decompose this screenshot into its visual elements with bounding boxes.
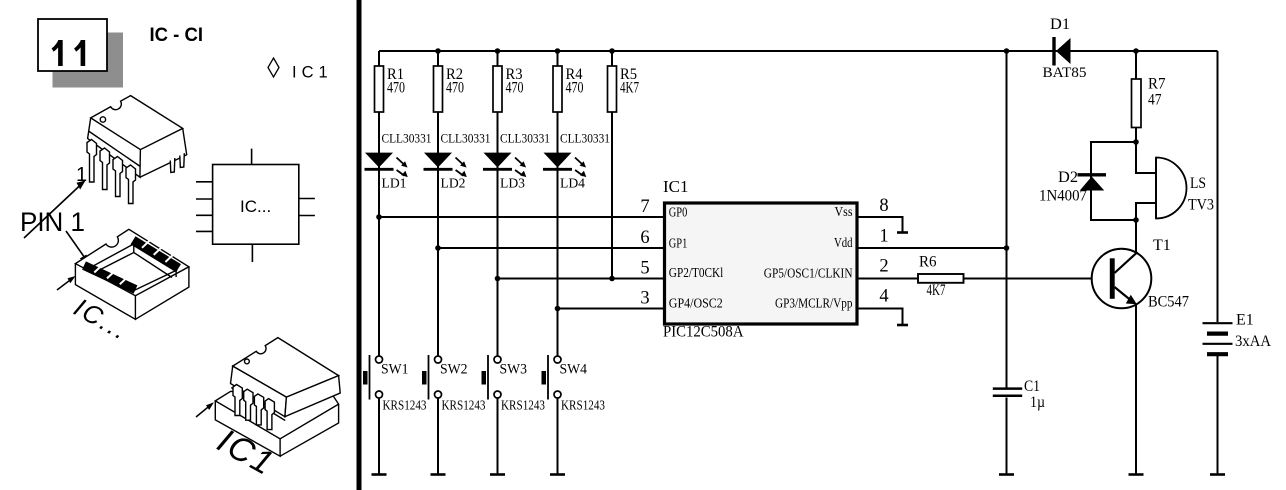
wire column 3 (R3/LD3/SW3) xyxy=(497,51,499,356)
resistor R7 xyxy=(1132,76,1166,128)
wire column 1 below SW1 xyxy=(378,398,380,475)
svg-text:3xAA: 3xAA xyxy=(1235,333,1272,350)
junction rail column 4 xyxy=(555,48,561,54)
wire column 4 (R4/LD4/SW4) xyxy=(557,51,559,356)
resistor R3 xyxy=(493,66,524,112)
wire GP4 pin 3 net xyxy=(558,308,665,310)
junction GP2 net R5 xyxy=(609,276,615,282)
svg-text:CLL30331: CLL30331 xyxy=(500,131,550,146)
svg-text:KRS1243: KRS1243 xyxy=(442,398,486,413)
wire C1 branch xyxy=(1006,51,1008,388)
junction rail R7 branch xyxy=(1133,48,1139,54)
battery E1 3xAA xyxy=(1203,312,1272,355)
svg-text:SW2: SW2 xyxy=(440,361,468,377)
svg-text:GP3/MCLR/Vpp: GP3/MCLR/Vpp xyxy=(775,297,853,312)
socket contact slot row left xyxy=(84,265,136,290)
svg-text:E1: E1 xyxy=(1236,312,1254,329)
LED LD4 xyxy=(543,131,610,192)
arrow to IC1 socket corner xyxy=(196,402,214,417)
svg-text:LD2: LD2 xyxy=(441,177,466,192)
svg-text:SW4: SW4 xyxy=(560,361,588,377)
svg-text:C1: C1 xyxy=(1024,378,1040,395)
junction rail column 2 xyxy=(435,48,441,54)
svg-text:1: 1 xyxy=(879,227,888,247)
junction Vdd net C1 branch xyxy=(1004,245,1010,251)
capacitor C1 xyxy=(993,378,1045,411)
IC circuit symbol box xyxy=(196,149,315,262)
resistor R4 xyxy=(553,66,584,112)
svg-text:2: 2 xyxy=(879,257,888,277)
svg-text:4K7: 4K7 xyxy=(927,282,946,299)
terminal bar T1 emitter xyxy=(1129,473,1144,476)
svg-text:D1: D1 xyxy=(1050,16,1070,33)
wire right rail down to battery E1 xyxy=(1217,51,1219,322)
junction GP2 net column 3 xyxy=(495,276,501,282)
LED LD1 xyxy=(365,131,432,192)
switch SW4 xyxy=(542,355,606,413)
svg-text:IC - CI: IC - CI xyxy=(150,25,204,46)
terminal bar E1 xyxy=(1210,473,1225,476)
wire column 4 below SW4 xyxy=(557,398,559,475)
svg-text:1N4007: 1N4007 xyxy=(1039,188,1087,205)
svg-text:T1: T1 xyxy=(1153,237,1171,254)
wire R7 branch xyxy=(1135,51,1137,142)
svg-text:3: 3 xyxy=(640,289,649,309)
svg-text:TV3: TV3 xyxy=(1188,197,1214,214)
terminal bar pin 8 xyxy=(897,231,908,234)
svg-text:8: 8 xyxy=(879,196,888,216)
wire T1 collector xyxy=(1135,220,1137,252)
chapter number box shadow xyxy=(53,33,124,88)
svg-text:470: 470 xyxy=(387,80,405,97)
svg-text:470: 470 xyxy=(566,80,584,97)
wire GP1 pin 6 net xyxy=(438,247,664,249)
svg-text:4: 4 xyxy=(879,287,888,307)
wire Vdd pin 1 net xyxy=(857,247,1007,249)
switch SW3 xyxy=(482,355,546,413)
svg-text:5: 5 xyxy=(640,259,649,279)
resistor R6 xyxy=(918,254,964,300)
junction GP0 net column 1 xyxy=(376,214,382,220)
svg-text:7: 7 xyxy=(640,197,649,217)
wire GP5 pin 2 net through R6 to T1 base xyxy=(857,278,1109,280)
svg-text:6: 6 xyxy=(640,228,649,248)
svg-text:KRS1243: KRS1243 xyxy=(383,398,427,413)
transistor T1 BC547 xyxy=(1092,237,1190,311)
terminal bar column 4 xyxy=(550,473,565,476)
switch SW1 xyxy=(363,355,427,413)
svg-text:CLL30331: CLL30331 xyxy=(441,131,491,146)
IC in socket 3D drawing xyxy=(215,338,340,457)
diode D2 1N4007 xyxy=(1039,169,1106,205)
LED LD3 xyxy=(483,131,550,192)
junction GP1 net column 2 xyxy=(435,245,441,251)
legend diamond symbol xyxy=(268,58,279,77)
diode D1 BAT85 xyxy=(1043,16,1087,81)
arrow PIN 1 to DIP pin xyxy=(24,181,86,239)
svg-text:470: 470 xyxy=(506,80,524,97)
svg-text:R6: R6 xyxy=(919,254,937,271)
svg-text:GP1: GP1 xyxy=(669,236,688,251)
svg-text:D2: D2 xyxy=(1058,169,1078,186)
panel divider bar xyxy=(357,0,362,490)
svg-text:Vss: Vss xyxy=(835,205,853,220)
wire speaker lower lead xyxy=(1136,203,1156,220)
wire T1 emitter to bottom termination xyxy=(1135,305,1137,475)
junction rail R5 xyxy=(609,48,615,54)
wire column 3 below SW3 xyxy=(497,398,499,475)
svg-text:BAT85: BAT85 xyxy=(1043,65,1087,81)
wire Vss pin 8 stub xyxy=(857,217,903,232)
svg-text:IC...: IC... xyxy=(240,197,271,216)
svg-text:PIN 1: PIN 1 xyxy=(20,207,85,237)
svg-text:1µ: 1µ xyxy=(1030,394,1045,411)
junction rail C1 branch xyxy=(1004,48,1010,54)
svg-text:CLL30331: CLL30331 xyxy=(560,131,610,146)
svg-text:SW1: SW1 xyxy=(381,361,409,377)
junction D2 loop bottom xyxy=(1133,217,1139,223)
arrow to socket pin 1 corner xyxy=(57,276,76,290)
socket contact slot row right xyxy=(133,240,179,268)
svg-text:CLL30331: CLL30331 xyxy=(382,131,432,146)
svg-text:GP0: GP0 xyxy=(669,206,688,221)
svg-text:R7: R7 xyxy=(1148,76,1166,93)
junction rail column 3 xyxy=(495,48,501,54)
resistor R5 xyxy=(608,66,640,112)
wire column 2 below SW2 xyxy=(437,398,439,475)
wire speaker upper lead xyxy=(1136,142,1156,173)
svg-text:GP2/T0CKl: GP2/T0CKl xyxy=(669,266,724,281)
svg-text:GP4/OSC2: GP4/OSC2 xyxy=(669,297,723,312)
arrow PIN 1 to socket xyxy=(66,231,89,264)
wire column 2 (R2/LD2/SW2) xyxy=(437,51,439,356)
svg-text:LD3: LD3 xyxy=(500,177,525,192)
svg-text:Vdd: Vdd xyxy=(834,236,853,251)
terminal bar pin 4 xyxy=(897,324,908,327)
svg-text:SW3: SW3 xyxy=(500,361,528,377)
wire GP2 pin 5 net xyxy=(498,278,665,280)
wire column 5 (R5) down to GP2 net xyxy=(611,51,613,279)
terminal bar C1 xyxy=(999,473,1014,476)
wire battery E1 to bottom termination xyxy=(1217,356,1219,475)
svg-text:IC1: IC1 xyxy=(663,177,689,196)
switch SW2 xyxy=(422,355,486,413)
wire C1 to bottom termination xyxy=(1006,398,1008,475)
loudspeaker LS TV3 xyxy=(1156,158,1214,219)
IC socket 3D drawing xyxy=(75,229,188,319)
resistor R1 xyxy=(375,66,406,112)
terminal bar column 2 xyxy=(431,473,446,476)
svg-text:LD4: LD4 xyxy=(560,177,585,192)
terminal bar column 1 xyxy=(372,473,387,476)
wire top supply rail xyxy=(379,50,1218,52)
svg-text:KRS1243: KRS1243 xyxy=(561,398,605,413)
resistor R2 xyxy=(434,66,465,112)
svg-text:47: 47 xyxy=(1148,92,1162,109)
IC U1 PIC12C508A box xyxy=(663,177,857,341)
svg-text:4K7: 4K7 xyxy=(620,80,639,97)
chapter number box 11 xyxy=(38,19,107,71)
svg-text:IC1: IC1 xyxy=(292,64,333,82)
wire D2 loop xyxy=(1091,142,1136,220)
svg-text:GP5/OSC1/CLKIN: GP5/OSC1/CLKIN xyxy=(764,266,853,281)
svg-text:KRS1243: KRS1243 xyxy=(501,398,545,413)
DIP-8 package 3D drawing xyxy=(87,96,187,204)
LED LD2 xyxy=(424,131,491,192)
terminal bar column 3 xyxy=(490,473,505,476)
junction D2 loop top xyxy=(1133,139,1139,145)
svg-text:LS: LS xyxy=(1190,175,1206,192)
svg-text:470: 470 xyxy=(446,80,464,97)
svg-text:PIC12C508A: PIC12C508A xyxy=(663,324,744,341)
wire GP3 pin 4 stub xyxy=(857,309,903,325)
wire column 1 (R1/LD1/SW1) xyxy=(378,51,380,356)
svg-text:BC547: BC547 xyxy=(1148,294,1189,311)
svg-text:LD1: LD1 xyxy=(382,177,407,192)
wire GP0 pin 7 net xyxy=(379,216,664,218)
junction GP4 net column 4 xyxy=(555,306,561,312)
